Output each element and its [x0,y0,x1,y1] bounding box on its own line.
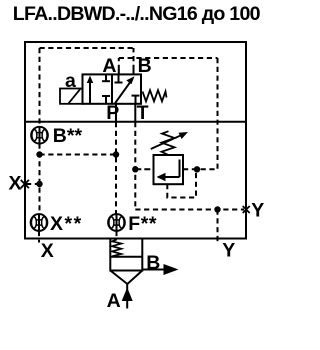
cartridge valve body [110,239,142,271]
pilot line A top horizontal [119,57,218,59]
junction dot X branch [36,181,42,187]
pilot line left column to X junction [39,144,41,215]
orifice B** [31,127,48,144]
junction dot P column [113,151,119,157]
svg-text:X: X [9,173,22,195]
valve return spring [143,90,167,101]
svg-text:Y: Y [222,239,235,261]
svg-text:X**: X** [50,213,83,235]
wire relief drain loop [167,169,196,197]
pilot line left column upper [39,48,41,127]
right position: diagonal flow arrow P to B [115,76,135,103]
port A arrow [122,288,133,302]
wire T column dashed down [134,122,136,209]
left position: blocked port bottom [102,96,110,104]
left position: blocked port top [102,74,110,81]
svg-text:A: A [107,290,121,312]
housing mid separation line [24,121,247,123]
pilot line B up [133,48,135,70]
svg-text:LFA..DBWD.-../..NG16 до 100: LFA..DBWD.-../..NG16 до 100 [13,3,261,25]
relief valve spring [162,131,175,155]
wire F to cartridge [116,231,118,239]
cartridge spring [112,240,121,258]
relief valve DB body [154,155,184,184]
wire T port stub [134,104,136,122]
node junction left-P crossline [40,154,117,156]
port X side stub [26,183,40,185]
wire relief outlet right [183,168,218,170]
junction dot relief outlet [194,166,200,172]
svg-text:F**: F** [128,213,157,235]
housing outer border [25,42,246,239]
wire X port down [38,231,40,243]
junction dot T relief inlet [132,166,138,172]
svg-text:P: P [106,102,119,124]
right position: blocked port T [132,96,140,104]
pilot line A up [118,58,120,70]
directional valve 4/2 body U1 [83,74,142,103]
svg-text:T: T [137,102,149,124]
port B arrow [164,264,179,275]
orifice X** [31,214,48,231]
wire Y port down [217,210,219,243]
solenoid a box [60,89,83,104]
svg-text:a: a [65,70,76,92]
svg-text:B**: B** [53,125,83,147]
left position: flow arrow up [87,76,93,104]
wire P column dashed [115,122,117,214]
junction dot Y [214,206,220,212]
junction dot left column [36,151,42,157]
wire A port stub [118,70,120,75]
relief valve adjustment arrow [151,132,188,149]
port Y cross mark [243,206,250,213]
wire port A in [126,284,128,309]
svg-text:Y: Y [251,199,264,221]
pilot line top edge [40,47,134,49]
wire relief inlet [135,168,153,170]
pilot line right column down [217,58,219,169]
wire Y line horizontal [135,209,244,211]
port X cross mark [21,180,29,188]
svg-text:B: B [146,252,160,274]
right position: blocked port A [115,74,123,82]
wire P port stub [115,104,117,122]
svg-text:A: A [102,55,116,77]
wire port B out [142,269,165,271]
svg-text:X: X [41,240,54,262]
orifice F** [108,214,125,231]
cartridge poppet seat [110,271,142,285]
wire B port stub [133,70,135,75]
